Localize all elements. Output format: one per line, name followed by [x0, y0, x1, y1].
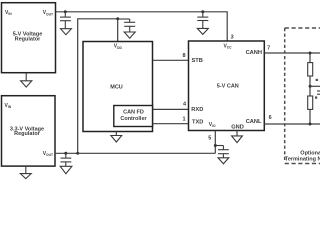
wire: 3.3-V rail from VOUT to CAN VIO	[55, 152, 215, 154]
capacitor C5 (VIO bypass)	[215, 146, 229, 158]
svg-text:Terminating N: Terminating N	[285, 156, 320, 162]
ground (C5)	[218, 158, 229, 164]
partial label fragment (cut at right edge, lower)	[315, 96, 317, 98]
svg-text:GND: GND	[231, 124, 244, 130]
svg-text:3: 3	[231, 35, 234, 41]
node: junction on 3.3-V rail, VDD branch	[76, 152, 79, 155]
wire: 3.3-V branch up and over to MCU VDD pin	[78, 19, 118, 154]
ground (MCU)	[111, 132, 122, 143]
svg-text:CANH: CANH	[246, 50, 262, 56]
svg-text:Regulator: Regulator	[14, 131, 41, 137]
capacitor C3 (3.3-V rail bypass)	[61, 153, 72, 166]
wire: CANH bus	[264, 52, 320, 54]
label: Optional Terminating Network	[285, 150, 320, 162]
wire: VIO drop from pin 5 to 3.3-V rail	[214, 131, 216, 154]
capacitor C4 (MCU VDD decoupling)	[118, 19, 136, 32]
capacitor C6 (split termination, partially visible at edge)	[317, 91, 320, 94]
node: junction on 3.3-V rail at C3	[64, 152, 67, 155]
svg-text:TXD: TXD	[192, 120, 203, 126]
ground (C4)	[124, 32, 135, 38]
ground (3.3-V regulator)	[20, 166, 31, 179]
wire: TXD	[153, 123, 189, 125]
node: junction on 5-V rail at C1	[64, 10, 67, 13]
svg-text:STB: STB	[192, 58, 203, 64]
svg-text:6: 6	[269, 115, 272, 121]
resistor R1 (termination, upper)	[308, 63, 313, 76]
ground (CAN GND pin)	[232, 131, 243, 143]
node: CANL termination junction	[309, 123, 312, 126]
wire: STB	[153, 59, 189, 61]
svg-text:CANL: CANL	[246, 119, 262, 125]
svg-text:MCU: MCU	[110, 84, 123, 90]
wire: midpoint to split cap	[310, 85, 320, 87]
capacitor C2 (CAN VCC bypass)	[197, 12, 208, 28]
ground (C1)	[61, 29, 72, 35]
dashed enclosure: optional terminating network	[285, 28, 320, 164]
partial label fragment (cut at right edge, upper)	[316, 79, 318, 81]
svg-text:Regulator: Regulator	[15, 36, 42, 42]
voltage regulator U2 (3.3-V)	[2, 96, 56, 166]
svg-text:RXD: RXD	[191, 107, 203, 113]
svg-text:7: 7	[267, 45, 270, 51]
ground (C2)	[197, 28, 208, 34]
node: split-termination midpoint	[309, 85, 312, 88]
svg-text:Controller: Controller	[120, 116, 147, 122]
resistor R2 (termination, lower)	[308, 96, 313, 109]
5-V CAN transceiver U4	[189, 41, 265, 131]
capacitor C1 (5-V rail bypass)	[60, 12, 71, 29]
ground (5-V regulator)	[21, 73, 32, 87]
svg-text:CAN FD: CAN FD	[123, 109, 144, 115]
ground (C3)	[60, 166, 72, 173]
node: junction on 5-V rail at C2	[201, 10, 204, 13]
wire: 5-V rail from VOUT to CAN VCC pin	[56, 12, 228, 41]
wire: RXD	[153, 108, 189, 110]
node: junction at VIO cap	[214, 144, 217, 147]
svg-text:5-V CAN: 5-V CAN	[217, 84, 239, 90]
voltage regulator U1 (5-V)	[2, 3, 56, 73]
svg-text:1: 1	[182, 117, 185, 123]
svg-text:5: 5	[208, 135, 211, 141]
wire: CANL bus	[264, 123, 320, 125]
CAN FD Controller (inside MCU)	[114, 106, 153, 127]
svg-text:8: 8	[182, 53, 185, 59]
node: junction at MCU VDD cap	[116, 17, 119, 20]
node: CANH termination junction	[309, 52, 312, 55]
MCU U3	[83, 42, 153, 132]
wire: termination string CANH to CANL	[309, 53, 311, 124]
